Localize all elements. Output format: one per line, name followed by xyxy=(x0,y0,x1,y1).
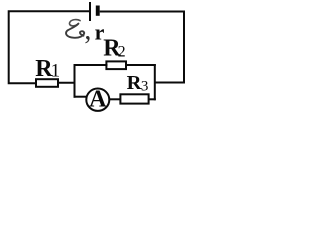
svg-text:3: 3 xyxy=(141,79,149,95)
svg-text:r: r xyxy=(95,19,105,44)
svg-text:1: 1 xyxy=(51,61,61,82)
svg-text:,: , xyxy=(84,15,91,46)
svg-text:A: A xyxy=(89,87,107,113)
svg-text:2: 2 xyxy=(118,44,126,61)
svg-text:R: R xyxy=(127,72,142,94)
